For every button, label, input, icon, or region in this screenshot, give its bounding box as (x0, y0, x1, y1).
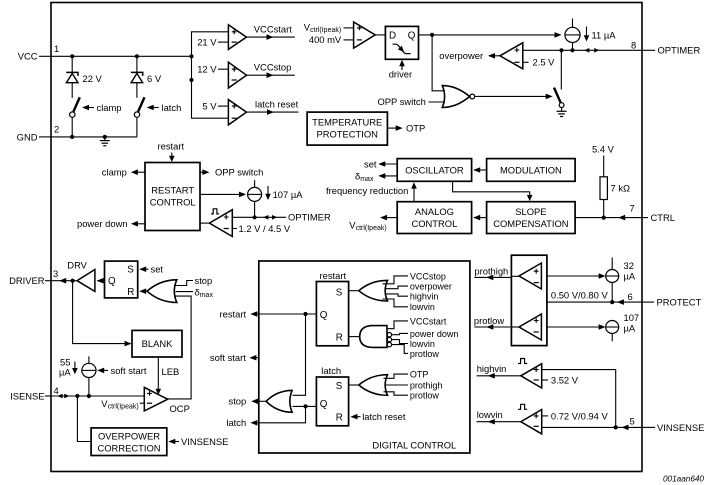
ground symbol (GND rail) (100, 137, 110, 146)
pin OPTIMER (pin 8) (631, 39, 700, 55)
svg-text:Q: Q (320, 310, 328, 321)
svg-text:protlow: protlow (410, 391, 440, 401)
wire DRV junction to BLANK (73, 281, 130, 344)
wire Q to DRV (98, 280, 105, 282)
svg-text:RESTART: RESTART (151, 185, 194, 196)
wire latch Q output (293, 405, 317, 407)
comparator VCCstop (12 V) (197, 62, 295, 88)
junction VCC/zener6 (135, 54, 139, 58)
svg-text:SLOPE: SLOPE (515, 206, 546, 217)
SR flip-flop latch (316, 365, 348, 426)
wire VINSENSE line to lowvin minus input (542, 426, 642, 428)
junction resistor/CTRL (602, 216, 606, 220)
pin GND (pin 2) (17, 124, 60, 143)
svg-text:stop: stop (195, 275, 213, 286)
wire Q output to current source (419, 34, 561, 36)
svg-text:COMPENSATION: COMPENSATION (493, 218, 568, 229)
NOR gate U-opp (442, 86, 474, 108)
svg-text:D: D (389, 30, 396, 41)
block MODULATION (487, 159, 575, 182)
svg-text:OPP switch: OPP switch (215, 167, 263, 178)
svg-text:soft start: soft start (210, 352, 246, 363)
wire resistor to CTRL line (603, 200, 605, 218)
svg-text:OTP: OTP (410, 370, 429, 380)
wire soft start output stub (210, 352, 259, 363)
svg-text:CTRL: CTRL (651, 212, 675, 223)
svg-text:PROTECT: PROTECT (657, 297, 702, 308)
svg-text:restart: restart (320, 270, 347, 281)
comparator restart timer (1.2 V / 4.5 V) (200, 209, 291, 237)
comparator prothigh (519, 263, 541, 289)
wire prothigh output (474, 265, 519, 280)
wire restart Q down to stop OR gate (293, 314, 306, 395)
wire DRIVER output line (51, 280, 77, 282)
svg-text:prothigh: prothigh (410, 380, 443, 390)
wire delta-max output (355, 170, 397, 183)
comparator highvin (3.52 V) (518, 359, 542, 389)
comparator VCCstart (21 V) (197, 24, 295, 50)
pin CTRL (pin 7) (630, 202, 675, 223)
svg-text:21 V: 21 V (197, 37, 217, 48)
svg-text:8: 8 (631, 39, 636, 50)
block protect comparators box (511, 255, 547, 345)
svg-text:latch: latch (226, 417, 246, 428)
wire LEB (BLANK to OCP) (156, 357, 180, 395)
wire OTP input (384, 370, 429, 380)
current source 55 uA soft start (59, 356, 96, 396)
wire 5.4V to resistor (603, 156, 605, 177)
svg-text:OTP: OTP (406, 123, 425, 134)
wire OPTIMER internal line (232, 212, 331, 223)
wire SLOPE to ANALOG (474, 217, 487, 219)
svg-text:VINSENSE: VINSENSE (657, 422, 704, 433)
svg-text:lowvin: lowvin (477, 409, 503, 420)
wire power down input (392, 329, 459, 339)
svg-text:VCCstop: VCCstop (254, 62, 292, 73)
svg-text:GND: GND (17, 131, 38, 142)
svg-text:R: R (336, 333, 343, 344)
zener diode 6 V (131, 56, 162, 98)
svg-text:5.4 V: 5.4 V (592, 143, 615, 154)
svg-text:OVERPOWER: OVERPOWER (98, 430, 160, 441)
wire lowvin input (383, 299, 435, 312)
svg-text:OSCILLATOR: OSCILLATOR (405, 164, 464, 175)
svg-text:3: 3 (53, 268, 58, 279)
junction VCC/comparator bus (189, 54, 193, 58)
junction latch Q/latch out branch (303, 404, 307, 408)
wire restart output (Q of restart FF) (220, 308, 317, 319)
junction restart Q/stop OR branch (303, 312, 307, 316)
wire CTRL line (575, 217, 642, 219)
svg-text:5 V: 5 V (202, 101, 217, 112)
svg-text:32: 32 (624, 260, 634, 271)
svg-text:7 kΩ: 7 kΩ (611, 183, 631, 194)
wire stop input (hook) (174, 275, 212, 286)
svg-text:0.72 V/0.94 V: 0.72 V/0.94 V (551, 410, 609, 421)
block OSCILLATOR (397, 159, 471, 182)
svg-text:Q: Q (408, 30, 416, 41)
svg-text:VINSENSE: VINSENSE (181, 436, 228, 447)
wire highvin plus input from VINSENSE (542, 370, 616, 428)
wire latch reset input (350, 411, 405, 422)
svg-text:highvin: highvin (410, 292, 439, 302)
block RESTART CONTROL (145, 163, 200, 231)
wire R input of restart FF (349, 336, 360, 338)
switch clamp (70, 97, 122, 137)
label soft start with arrow (97, 365, 147, 376)
svg-text:latch reset: latch reset (362, 411, 406, 422)
svg-text:R: R (127, 287, 134, 298)
svg-text:clamp: clamp (102, 167, 127, 178)
svg-text:4: 4 (54, 385, 59, 396)
wire OR output to R (141, 290, 147, 292)
svg-text:restart: restart (220, 308, 247, 319)
svg-text:set: set (364, 158, 377, 169)
ground symbol (OPP switch) (557, 111, 567, 116)
wire VCC rail (51, 55, 192, 57)
comparator protlow (519, 314, 541, 340)
junction GND/ground symbol (103, 135, 107, 139)
svg-text:stop: stop (229, 396, 247, 407)
wire delta-max input (176, 286, 214, 299)
svg-text:R: R (336, 413, 343, 424)
svg-text:µA: µA (624, 322, 636, 333)
svg-text:S: S (336, 381, 343, 392)
svg-text:latch: latch (162, 102, 182, 113)
svg-text:2.5 V: 2.5 V (533, 57, 556, 68)
wire set output (364, 158, 397, 169)
block ANALOG CONTROL (397, 202, 471, 234)
resistor 7 kOhm (600, 177, 630, 200)
svg-text:2: 2 (54, 124, 59, 135)
svg-text:power down: power down (77, 218, 128, 229)
current source 32 uA (606, 258, 636, 303)
svg-text:DIGITAL CONTROL: DIGITAL CONTROL (372, 440, 456, 451)
svg-text:CONTROL: CONTROL (150, 197, 196, 208)
wire lowvin output (477, 409, 521, 424)
wire lowvin input (reset) (392, 339, 435, 349)
svg-text:5: 5 (630, 416, 635, 427)
svg-text:Vctrl(Ipeak): Vctrl(Ipeak) (349, 220, 386, 233)
svg-text:power down: power down (410, 329, 459, 339)
wire OTP output (387, 127, 400, 129)
svg-text:overpower: overpower (439, 50, 483, 61)
svg-text:Vctrl(Ipeak): Vctrl(Ipeak) (101, 398, 138, 411)
junction VCC/zener22 (70, 54, 74, 58)
D flip-flop driver stage (D Q box) (385, 26, 418, 59)
wire OPP switch output (200, 167, 263, 178)
svg-text:VCCstart: VCCstart (410, 316, 447, 326)
comparator lowvin (0.72 V/0.94 V) (518, 404, 542, 434)
wire S input of restart FF (349, 290, 359, 292)
wire GND rail (51, 136, 137, 138)
svg-text:BLANK: BLANK (142, 338, 173, 349)
wire frequency reduction input (326, 182, 417, 201)
comparator overpower (2.5 V) (439, 43, 555, 69)
comparator OCP (144, 387, 190, 414)
junction ISENSE/overpower correction (75, 394, 79, 398)
wire overpower correction to ISENSE (77, 396, 91, 442)
wire highvin input (385, 292, 438, 302)
svg-text:0.50 V/0.80 V: 0.50 V/0.80 V (551, 290, 609, 301)
wire VCCstop input (383, 271, 446, 284)
wire S input of latch FF (349, 384, 359, 386)
svg-text:restart: restart (158, 141, 185, 152)
svg-text:δmax: δmax (195, 286, 214, 299)
block TEMPERATURE PROTECTION (307, 112, 387, 145)
wire ISENSE line (51, 395, 144, 397)
svg-text:12 V: 12 V (197, 64, 217, 75)
zener diode 22 V (66, 56, 102, 98)
svg-text:OPP switch: OPP switch (378, 96, 426, 107)
wire prothigh comparator to 32uA node (547, 275, 605, 277)
label 0.72 V/0.94 V (542, 410, 609, 421)
junction DRIVER/BLANK branch (71, 279, 75, 283)
pin DRIVER (pin 3) (9, 268, 58, 286)
svg-text:107 µA: 107 µA (273, 189, 304, 200)
svg-text:22 V: 22 V (83, 73, 103, 84)
block OVERPOWER CORRECTION (91, 428, 167, 456)
wire OCP feedback into OR gate (168, 296, 191, 399)
current source 107 uA (protect) (606, 312, 639, 341)
wire MODULATION to OSCILLATOR (474, 169, 487, 171)
pin VINSENSE (pin 5) (630, 416, 705, 433)
wire comparator to D flip-flop (375, 34, 385, 36)
label 3.52 V (542, 374, 579, 385)
svg-text:VCCstop: VCCstop (410, 271, 446, 281)
label VINSENSE input to overpower correction (168, 436, 228, 447)
wire PROTECT line (547, 301, 642, 303)
svg-text:CONTROL: CONTROL (411, 218, 457, 229)
svg-text:001aan640: 001aan640 (663, 475, 704, 484)
svg-text:Q: Q (320, 399, 328, 410)
svg-text:OPTIMER: OPTIMER (288, 212, 331, 223)
wire clamp output (102, 167, 145, 178)
wire latch output (226, 406, 305, 428)
svg-text:highvin: highvin (477, 363, 507, 374)
svg-text:δmax: δmax (355, 170, 374, 183)
svg-text:protlow: protlow (474, 315, 504, 326)
svg-text:driver: driver (389, 69, 412, 80)
pin VCC (pin 1) (18, 43, 60, 62)
wire NOR input branch from Q (432, 35, 445, 91)
junction ISENSE/soft start (87, 394, 91, 398)
block BLANK (132, 330, 182, 357)
wire prothigh input (386, 380, 443, 390)
svg-text:LEB: LEB (162, 366, 180, 377)
svg-text:107: 107 (624, 312, 640, 323)
svg-text:lowvin: lowvin (410, 302, 435, 312)
SR flip-flop restart (316, 270, 348, 346)
svg-text:400 mV: 400 mV (309, 34, 342, 45)
junction PROTECT/current sources (610, 300, 614, 304)
junction Q output / NOR branch (430, 33, 434, 37)
wire restart control to 107uA source (200, 192, 246, 198)
block DIGITAL CONTROL (259, 261, 470, 453)
svg-text:OCP: OCP (170, 403, 190, 414)
current source 107 uA (restart) (248, 180, 304, 217)
comparator Vctrl(Ipeak)/400 mV (304, 22, 375, 49)
svg-text:DRIVER: DRIVER (9, 275, 45, 286)
wire Vctrl(Ipeak) output of ANALOG CONTROL (349, 215, 397, 232)
svg-text:1: 1 (54, 43, 59, 54)
current source 11 uA (565, 19, 616, 51)
pin PROTECT (pin 6) (628, 291, 702, 308)
svg-text:latch: latch (321, 365, 341, 376)
OR gate driver-reset (147, 280, 177, 303)
svg-text:set: set (151, 264, 164, 275)
svg-text:frequency reduction: frequency reduction (326, 185, 408, 196)
junction OPTIMER/switch branch (559, 48, 563, 52)
switch latch (134, 97, 181, 137)
wire OPTIMER net (pin 8 line) (523, 49, 642, 51)
OR gate latch-set (359, 375, 388, 396)
svg-text:soft start: soft start (111, 365, 147, 376)
wire protlow input (latch set) (384, 391, 440, 401)
pin ISENSE (pin 4) (10, 385, 59, 401)
svg-text:overpower: overpower (410, 282, 452, 292)
svg-text:VCCstart: VCCstart (254, 24, 292, 35)
svg-text:3.52 V: 3.52 V (551, 374, 579, 385)
wire protlow output (474, 315, 519, 330)
svg-text:µA: µA (59, 367, 71, 378)
wire highvin output (477, 363, 521, 378)
junction OPTIMER/current source (570, 48, 574, 52)
svg-text:1.2 V / 4.5 V: 1.2 V / 4.5 V (239, 223, 291, 234)
OR gate stop (266, 390, 292, 412)
AND gate restart-reset (with inverting inputs) (360, 326, 392, 348)
OR gate restart-set (359, 280, 388, 301)
svg-text:Q: Q (108, 276, 116, 287)
wire set input to S (139, 264, 163, 275)
svg-text:6: 6 (628, 291, 633, 302)
wire protlow input (reset) (392, 345, 440, 359)
wire protlow comparator to 107uA node (547, 326, 605, 328)
svg-text:lowvin: lowvin (410, 339, 435, 349)
label driver with arrow into flip-flop (389, 60, 412, 80)
wire OSCILLATOR to SLOPE COMPENSATION (453, 181, 533, 201)
svg-text:7: 7 (630, 202, 635, 213)
svg-text:6 V: 6 V (147, 73, 162, 84)
svg-text:ANALOG: ANALOG (415, 206, 454, 217)
svg-text:CORRECTION: CORRECTION (97, 442, 160, 453)
buffer DRV (67, 259, 95, 291)
svg-text:prothigh: prothigh (474, 265, 508, 276)
wire overpower input (385, 282, 452, 292)
label restart input with arrow (158, 141, 185, 163)
label Vctrl(Ipeak) at OCP minus input (101, 398, 144, 411)
svg-text:S: S (127, 264, 134, 275)
svg-text:latch reset: latch reset (255, 99, 299, 110)
SR flip-flop (driver latch) (105, 261, 138, 298)
junction GND/clamp (70, 135, 74, 139)
wire comparator supply bus (192, 32, 229, 118)
svg-text:VCC: VCC (18, 51, 38, 62)
wire power down output (77, 218, 145, 229)
svg-text:PROTECTION: PROTECTION (316, 128, 377, 139)
svg-text:protlow: protlow (410, 349, 440, 359)
junction OPTIMER internal/current source (253, 215, 257, 219)
svg-text:11 µA: 11 µA (592, 29, 617, 40)
comparator latch reset (5 V) (202, 99, 298, 125)
switch OPP (to ground) (554, 50, 564, 111)
junction VINSENSE/highvin branch (614, 425, 618, 429)
svg-text:ISENSE: ISENSE (10, 390, 44, 401)
junction bus/12V comparator (189, 78, 193, 82)
wire VCCstart input (387, 316, 447, 328)
svg-text:DRV: DRV (67, 259, 87, 270)
svg-text:OPTIMER: OPTIMER (658, 45, 701, 56)
wire NOR output to switch (475, 95, 551, 97)
svg-text:TEMPERATURE: TEMPERATURE (312, 116, 382, 127)
svg-text:S: S (336, 287, 343, 298)
svg-text:MODULATION: MODULATION (500, 164, 562, 175)
svg-text:clamp: clamp (97, 102, 122, 113)
svg-text:µA: µA (624, 270, 636, 281)
wire stop output (229, 396, 267, 407)
svg-text:Vctrl(Ipeak): Vctrl(Ipeak) (304, 22, 341, 35)
block SLOPE COMPENSATION (487, 202, 575, 234)
